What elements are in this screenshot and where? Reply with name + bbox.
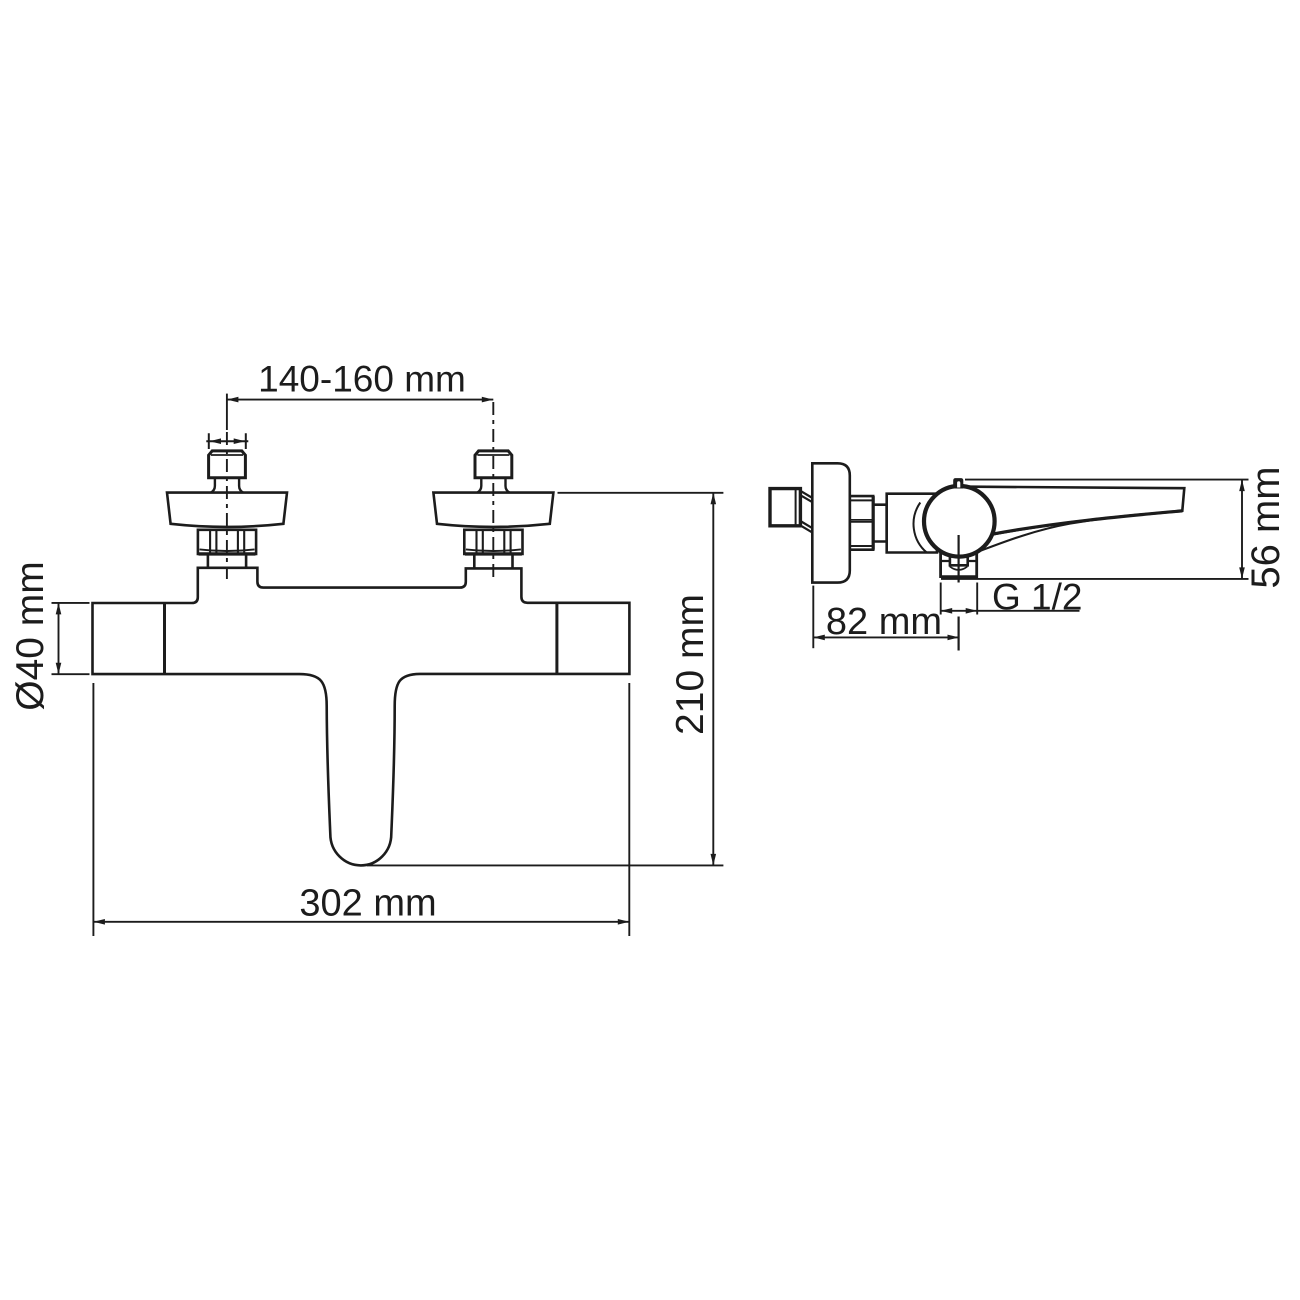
side view: wall thread nipple — [770, 489, 800, 526]
side view: body round end arc — [914, 503, 927, 553]
left connector centerline — [226, 394, 228, 430]
left wall connector (nipple, stem, escutcheon, hex nut, spacer) — [167, 451, 287, 568]
dimension 210 mm — [367, 493, 723, 866]
side view: outlet inner nut — [942, 560, 976, 562]
side view: spacer ring — [873, 505, 887, 542]
front view: faucet body outline with spout — [93, 568, 630, 866]
side view: shower outlet box — [941, 548, 977, 577]
dimension 56 mm — [941, 466, 1288, 588]
dimension G 1/2 — [941, 576, 1083, 617]
front view: right end cap boundary — [555, 603, 558, 674]
svg-text:56 mm: 56 mm — [1244, 466, 1288, 588]
right connector centerline — [492, 402, 494, 579]
side view: escutcheon — [812, 463, 850, 582]
front view: left end cap boundary — [163, 603, 166, 674]
svg-text:Ø40 mm: Ø40 mm — [9, 561, 52, 711]
small thread width dimension over left nipple — [206, 433, 248, 449]
svg-text:140-160 mm: 140-160 mm — [258, 358, 466, 399]
svg-text:82 mm: 82 mm — [826, 601, 942, 643]
side view: control knob circle — [924, 486, 995, 557]
dimension 140-160 mm — [227, 358, 493, 402]
svg-text:302 mm: 302 mm — [299, 883, 436, 925]
side view: faucet body — [887, 494, 937, 553]
right wall connector — [433, 451, 553, 568]
side view: eccentric cone — [800, 491, 812, 533]
svg-text:210 mm: 210 mm — [669, 594, 712, 735]
side view: knob top tab — [953, 478, 963, 488]
svg-text:G 1/2: G 1/2 — [992, 576, 1083, 617]
side view: spout lever — [958, 487, 1184, 535]
dimension 302 mm — [93, 683, 629, 936]
side view: vertical centerline — [957, 535, 959, 651]
side view: hex nut — [850, 496, 873, 550]
dimension 82 mm — [813, 586, 959, 649]
dimension D40 mm — [9, 561, 90, 711]
